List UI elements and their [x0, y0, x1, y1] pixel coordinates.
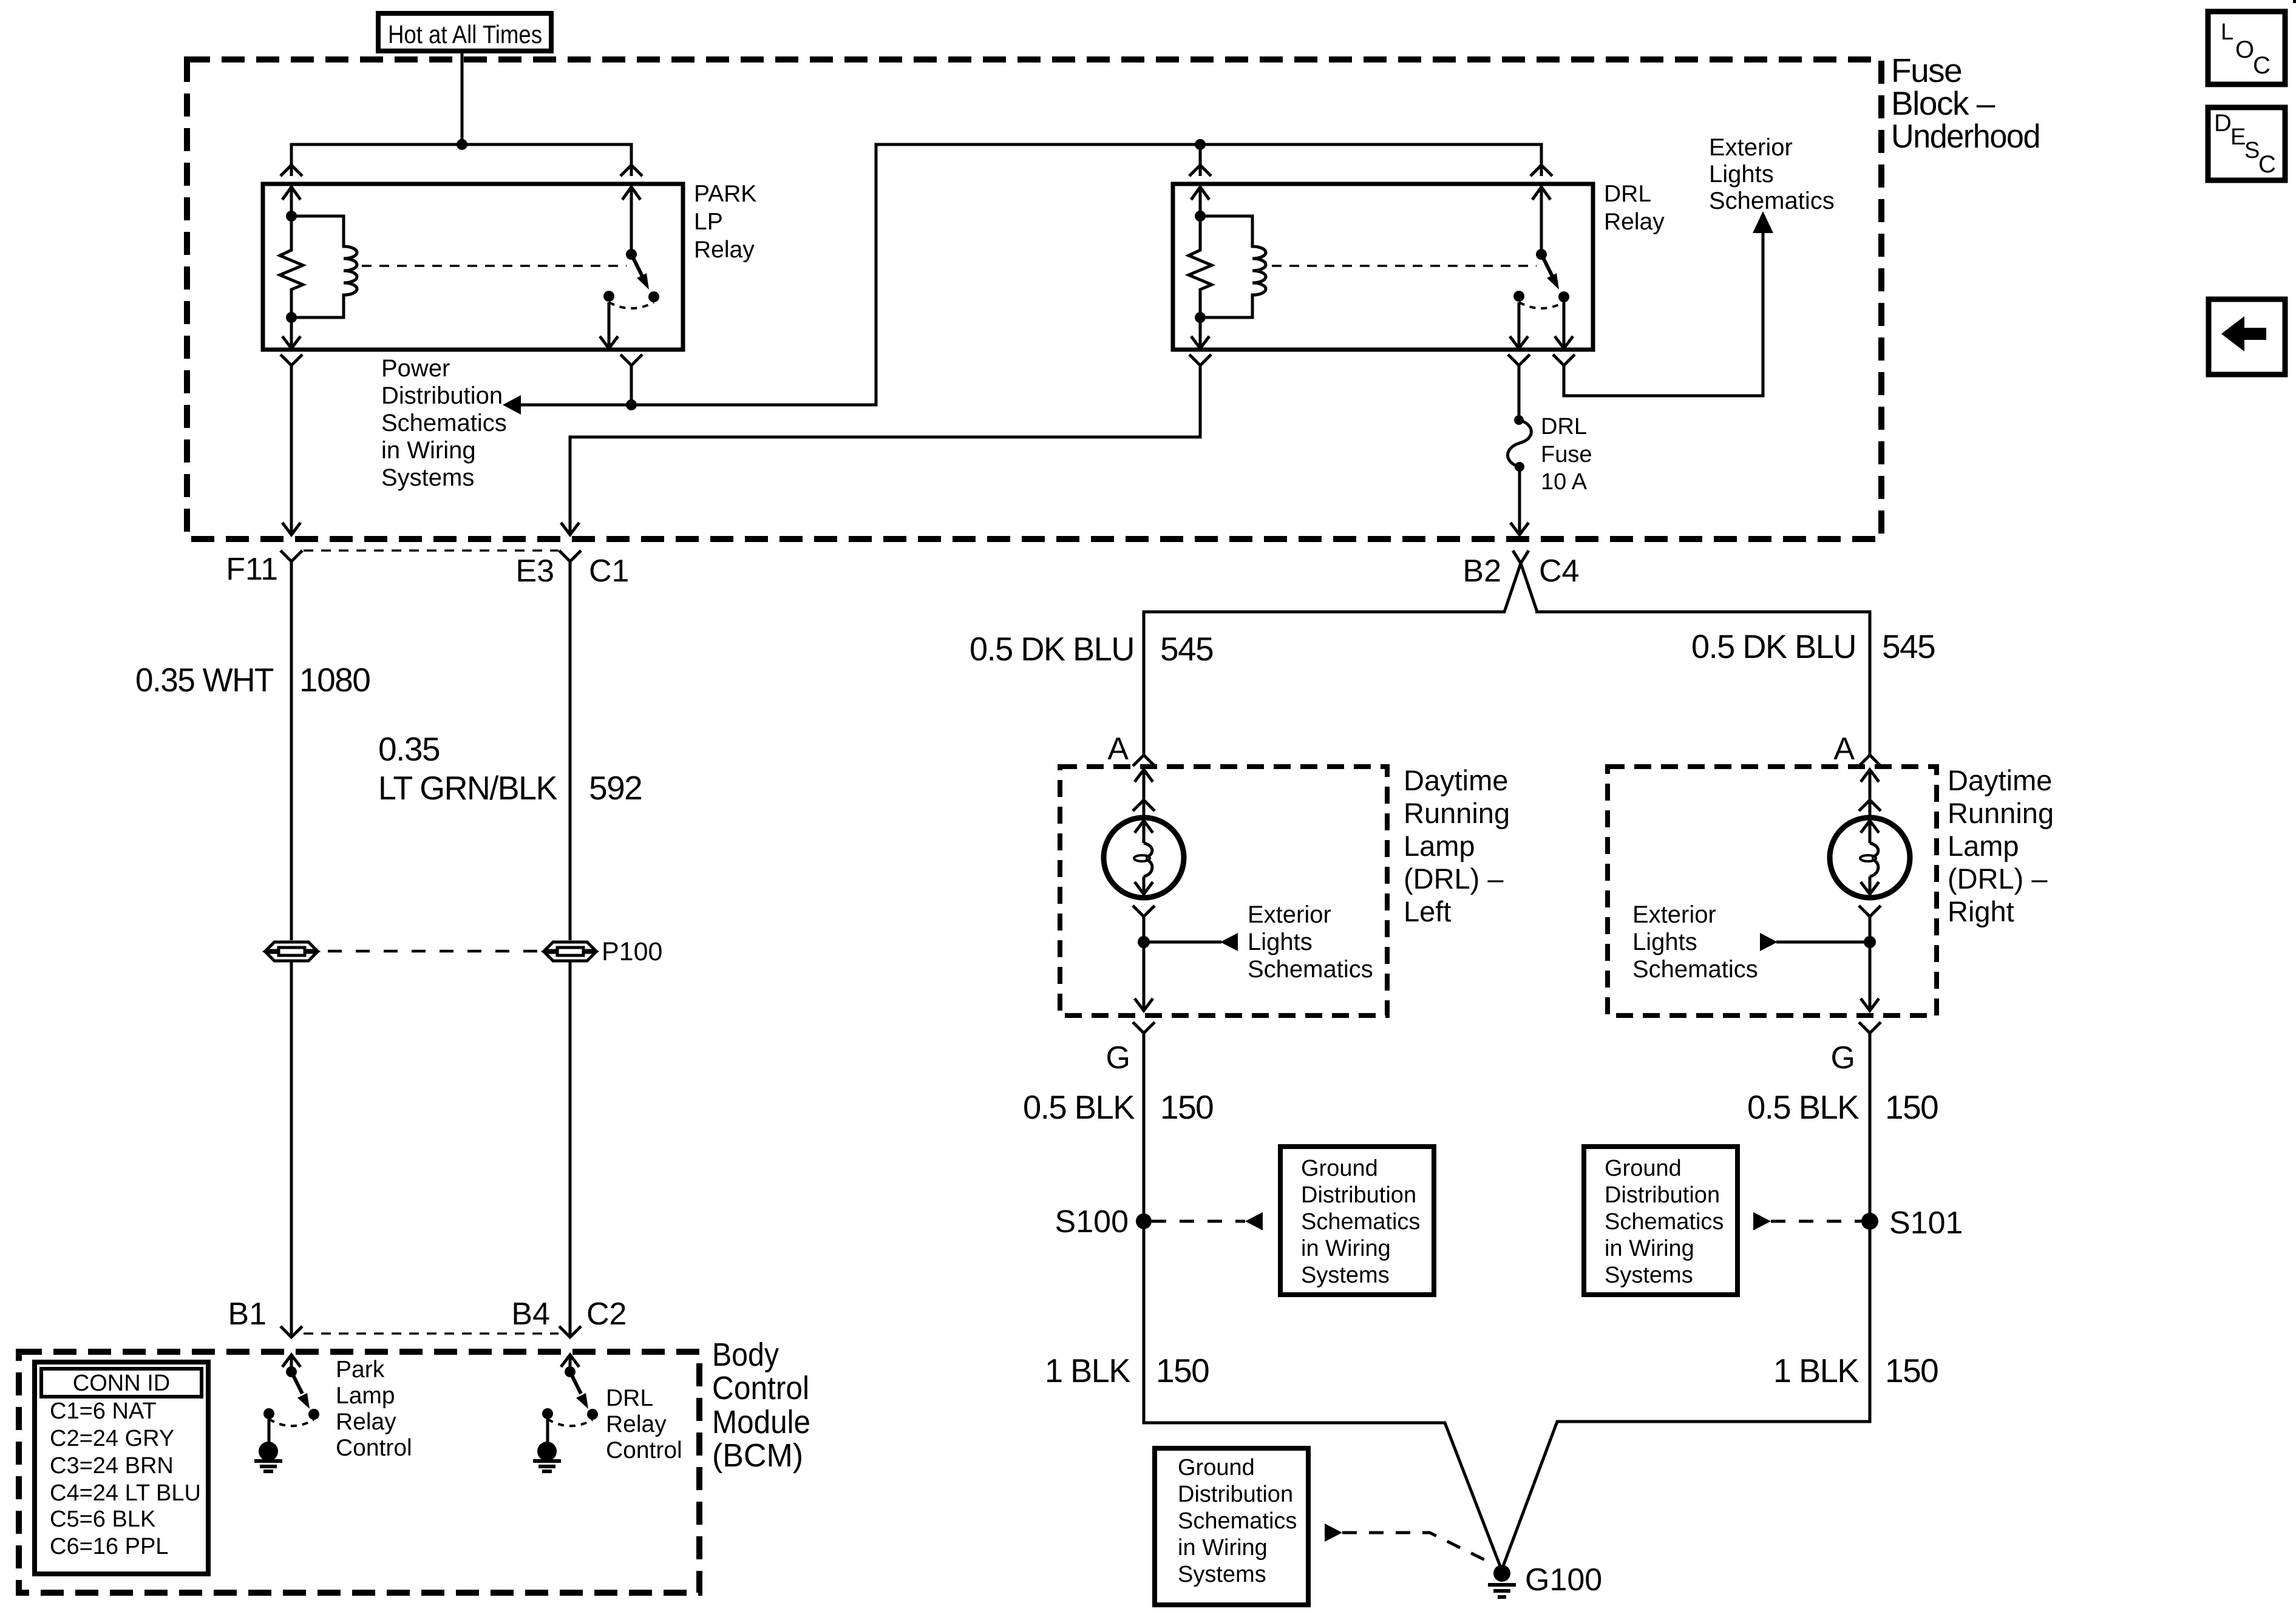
relay PARK LP Relay box [263, 184, 683, 350]
svg-text:Underhood: Underhood [1891, 117, 2040, 155]
svg-text:in Wiring: in Wiring [1605, 1236, 1694, 1261]
label: Exterior Lights Schematics (left lamp) [1248, 901, 1373, 983]
wire from fuse down to fuse block edge arrow [1510, 467, 1529, 535]
wire right lamp ground run to G100 [1503, 1033, 1870, 1566]
svg-text:B4: B4 [511, 1297, 550, 1332]
svg-text:Systems: Systems [1301, 1263, 1390, 1288]
svg-text:S: S [2244, 138, 2260, 163]
DRL relay switch contacts [1513, 291, 1524, 302]
svg-text:0.5 DK BLU: 0.5 DK BLU [970, 630, 1134, 668]
wire label 0.5 DK BLU 545 (right) [1691, 628, 1935, 665]
relay DRL Relay box [1173, 184, 1593, 350]
bulb DRL Right [1830, 818, 1910, 898]
dashed throw arc DRL switch [1519, 302, 1564, 308]
CONN ID table [35, 1362, 208, 1574]
connector pin label A (left) [1107, 731, 1129, 767]
node: coil bottom junction [286, 312, 297, 323]
svg-text:D: D [2214, 110, 2232, 137]
junction node on feed rail [457, 139, 467, 150]
BCM pin B1 entry arrow [282, 1355, 301, 1372]
svg-text:LP: LP [694, 209, 723, 235]
svg-text:Running: Running [1948, 797, 2054, 829]
connector face dashed line F11-E3 [304, 549, 559, 552]
svg-text:C: C [2253, 52, 2271, 79]
svg-text:C2=24 GRY: C2=24 GRY [50, 1426, 174, 1451]
wire label 0.35 WHT 1080 [135, 661, 370, 699]
svg-text:C3=24 BRN: C3=24 BRN [50, 1453, 174, 1479]
internal ground for drl driver [533, 1419, 561, 1471]
in-line connector X symbol B2/C4 [1504, 551, 1537, 612]
connector female half at G (left) [1133, 1022, 1155, 1033]
wire from left bulb to ground exit [1135, 917, 1153, 1011]
label: Fuse Block - Underhood [1891, 52, 2040, 155]
reference arrow Exterior Lights (left lamp) [1144, 933, 1238, 951]
wire drop to DRL coil pin [1199, 144, 1202, 176]
wire from DRL switch contact 2 to Exterior Lights reference arrow [1564, 211, 1773, 396]
svg-text:Fuse: Fuse [1541, 442, 1592, 467]
svg-text:G: G [1831, 1040, 1855, 1076]
label: Daytime Running Lamp (DRL) - Right [1948, 764, 2054, 927]
svg-text:DRL: DRL [606, 1385, 653, 1411]
svg-text:Block –: Block – [1891, 84, 1995, 122]
svg-text:545: 545 [1160, 630, 1213, 668]
svg-text:0.35: 0.35 [378, 730, 440, 768]
svg-text:0.35 WHT: 0.35 WHT [135, 661, 274, 699]
svg-text:(DRL) –: (DRL) – [1404, 863, 1504, 895]
svg-text:Fuse: Fuse [1891, 52, 1961, 89]
lamp DRL Right dashed housing [1608, 767, 1937, 1015]
svg-text:B1: B1 [228, 1297, 267, 1332]
svg-text:Ground: Ground [1178, 1455, 1255, 1480]
svg-text:545: 545 [1882, 628, 1935, 665]
DRL relay coil pin arrow [1191, 187, 1209, 216]
svg-text:1080: 1080 [299, 661, 370, 699]
wire label 0.5 BLK 150 (left) [1023, 1088, 1213, 1126]
pass-through connector P100 (right half) [545, 942, 596, 961]
wire from DRL switch to fuse [1518, 365, 1521, 420]
wire from right bulb to ground exit [1861, 917, 1879, 1011]
node: right lamp ground junction [1864, 936, 1876, 948]
svg-text:Distribution: Distribution [1605, 1182, 1720, 1208]
PARK relay coil output arrow (down to box edge) [282, 317, 301, 348]
svg-text:Schematics: Schematics [1605, 1209, 1724, 1235]
reference arrow Exterior Lights (right lamp) [1760, 933, 1870, 951]
dashed reference to G100 [1325, 1524, 1495, 1565]
svg-text:Daytime: Daytime [1948, 764, 2052, 796]
dashed actuation link PARK relay [362, 265, 627, 267]
svg-text:S100: S100 [1055, 1204, 1129, 1239]
connector female half at PARK relay pin 3 [620, 165, 642, 176]
coil inside PARK relay [291, 216, 357, 317]
connector female half at DRL relay pin 1 [1189, 165, 1211, 176]
svg-text:0.5 DK BLU: 0.5 DK BLU [1691, 628, 1856, 665]
connector pin label G (right) [1831, 1040, 1855, 1076]
splice S100 [1055, 1204, 1152, 1239]
svg-text:150: 150 [1885, 1352, 1938, 1389]
wire label 1 BLK 150 (right) [1773, 1352, 1938, 1389]
svg-text:Schematics: Schematics [1178, 1508, 1297, 1534]
svg-text:C1=6 NAT: C1=6 NAT [50, 1398, 157, 1424]
connector female half at PARK relay pin 1 [280, 165, 302, 176]
svg-text:Lights: Lights [1248, 929, 1313, 955]
resistor inside DRL relay [1189, 216, 1212, 317]
svg-text:Control: Control [712, 1370, 809, 1406]
svg-text:Distribution: Distribution [381, 382, 503, 409]
node: distribution junction [626, 399, 637, 410]
svg-text:Relay: Relay [336, 1409, 396, 1435]
svg-text:0.5 BLK: 0.5 BLK [1023, 1088, 1135, 1126]
svg-text:0.5 BLK: 0.5 BLK [1747, 1088, 1860, 1126]
fuse DRL Fuse 10 A [1508, 415, 1532, 472]
label: DRL Relay [1604, 181, 1665, 235]
svg-text:G100: G100 [1525, 1562, 1602, 1598]
connector pin label F11 [226, 552, 278, 587]
svg-text:Exterior: Exterior [1632, 901, 1716, 928]
svg-text:Relay: Relay [1604, 209, 1665, 235]
module BCM dashed boundary [19, 1352, 699, 1593]
svg-text:Ground: Ground [1605, 1156, 1682, 1181]
svg-text:C4=24 LT BLU: C4=24 LT BLU [50, 1480, 201, 1506]
connector pin label B1 [228, 1297, 267, 1332]
svg-text:Lamp: Lamp [1948, 830, 2019, 862]
wire from PARK switch output to distribution junction [630, 365, 633, 405]
wire to Power Distribution reference arrow [503, 395, 631, 415]
fuse block underhood dashed boundary [187, 59, 1881, 539]
connector female half at A (left) [1133, 755, 1155, 766]
svg-text:C: C [2258, 151, 2276, 178]
svg-text:Right: Right [1948, 895, 2014, 927]
connector female half below F11 [280, 551, 302, 561]
wire label 0.5 DK BLU 545 (left) [970, 630, 1213, 668]
svg-text:Control: Control [336, 1435, 412, 1461]
icon box back arrow [2209, 299, 2285, 375]
svg-text:Exterior: Exterior [1248, 901, 1331, 928]
node: coil top junction [286, 211, 297, 222]
PARK relay switch contacts [603, 291, 614, 302]
drl relay control driver switch [542, 1366, 598, 1426]
svg-text:C5=6 BLK: C5=6 BLK [50, 1507, 155, 1532]
dashed reference to Ground Distribution (S101) [1753, 1212, 1862, 1230]
svg-text:B2: B2 [1462, 554, 1501, 589]
svg-text:C1: C1 [589, 554, 629, 589]
DRL relay switch pivot [1536, 249, 1547, 260]
wire F11 feed down to fuse block edge arrow [282, 365, 301, 535]
label P100 [602, 937, 662, 966]
DRL relay switch pin arrow [1532, 187, 1550, 254]
svg-text:1 BLK: 1 BLK [1045, 1352, 1131, 1389]
connector face dashed line B1-B4 [304, 1332, 559, 1335]
icon box DESC [2208, 107, 2285, 180]
wire P100 to B1 [290, 961, 293, 1337]
ground G100 [1488, 1562, 1602, 1598]
label: DRL Relay Control [606, 1385, 682, 1463]
pass-through connector P100 (left half) [266, 942, 317, 961]
wire F11 to P100 [290, 561, 293, 940]
svg-text:Power: Power [381, 355, 450, 382]
dashed throw arc PARK switch [609, 302, 654, 308]
reference box Ground Distribution (right) [1584, 1147, 1737, 1295]
svg-text:Control: Control [606, 1437, 682, 1463]
connector female half at B1 [280, 1326, 302, 1337]
wire left lamp ground run to G100 [1144, 1033, 1500, 1566]
svg-text:DRL: DRL [1541, 414, 1587, 439]
svg-text:Schematics: Schematics [1709, 188, 1835, 214]
svg-text:Ground: Ground [1301, 1156, 1378, 1181]
right lamp feed pin arrows [1859, 770, 1881, 817]
wire P100 to B4/C2 [569, 961, 572, 1337]
svg-text:A: A [1107, 731, 1129, 767]
svg-text:592: 592 [589, 769, 642, 807]
bulb DRL Left [1104, 818, 1184, 898]
svg-text:Lamp: Lamp [1404, 830, 1475, 862]
node: DRL rail junction at coil pin [1195, 139, 1206, 150]
svg-text:Daytime: Daytime [1404, 764, 1508, 796]
connector female half at A (right) [1859, 755, 1881, 766]
svg-text:Distribution: Distribution [1301, 1182, 1416, 1208]
Hot at All Times power tag [378, 13, 551, 51]
svg-text:Module: Module [712, 1404, 810, 1440]
svg-text:(DRL) –: (DRL) – [1948, 863, 2048, 895]
svg-text:Systems: Systems [381, 464, 474, 491]
svg-text:in Wiring: in Wiring [1301, 1236, 1391, 1261]
svg-text:Distribution: Distribution [1178, 1482, 1293, 1507]
svg-text:S101: S101 [1889, 1205, 1963, 1241]
dashed line between P100 halves [328, 950, 540, 953]
dashed actuation link DRL relay [1272, 265, 1537, 267]
svg-text:Schematics: Schematics [1301, 1209, 1420, 1235]
label: Park Lamp Relay Control [336, 1357, 412, 1461]
svg-text:C4: C4 [1539, 554, 1579, 589]
node: DRL coil bottom junction [1195, 312, 1206, 323]
svg-text:E: E [2230, 124, 2246, 150]
connector female half below PARK pin 2 [280, 354, 302, 365]
label: Daytime Running Lamp (DRL) - Left [1404, 764, 1510, 927]
PARK relay switch arm [631, 254, 649, 290]
corner mark artifact [2293, 0, 2296, 3]
park lamp relay control driver switch [263, 1366, 319, 1426]
connector below right bulb [1859, 906, 1881, 917]
svg-text:Schematics: Schematics [381, 410, 507, 436]
svg-text:Left: Left [1404, 895, 1451, 927]
svg-text:O: O [2235, 36, 2254, 63]
internal ground for park lamp driver [254, 1419, 282, 1471]
svg-text:L: L [2221, 19, 2233, 45]
wire: DRL coil return to E3/C1 [561, 354, 1211, 535]
PARK relay switch pin arrow (pin up) [622, 187, 640, 254]
PARK relay coil pin arrow (pin up) [282, 187, 301, 216]
svg-text:PARK: PARK [694, 181, 756, 207]
label: Power Distribution Schematics in Wiring Systems [381, 355, 507, 491]
svg-text:C2: C2 [586, 1297, 627, 1332]
svg-text:DRL: DRL [1604, 181, 1651, 207]
svg-text:C6=16 PPL: C6=16 PPL [50, 1534, 168, 1559]
splice S101 [1861, 1205, 1963, 1241]
svg-text:10 A: 10 A [1541, 469, 1588, 495]
wire E3/C1 to P100 [569, 561, 572, 940]
svg-text:Lamp: Lamp [336, 1383, 395, 1409]
wire label 0.5 BLK 150 (right) [1747, 1088, 1938, 1126]
connector female half at B4 [559, 1326, 581, 1337]
svg-text:(BCM): (BCM) [712, 1437, 803, 1474]
wire label 0.35 LT GRN/BLK 592 [378, 730, 642, 807]
DRL relay switch output arrows (both contacts down) [1510, 302, 1573, 348]
resistor inside PARK relay [280, 216, 303, 317]
svg-text:150: 150 [1160, 1088, 1213, 1126]
svg-text:LT GRN/BLK: LT GRN/BLK [378, 769, 558, 807]
node: DRL coil top junction [1195, 211, 1206, 222]
svg-text:A: A [1833, 731, 1855, 767]
connector female half below E3 [559, 551, 581, 561]
connector female half at G (right) [1859, 1022, 1881, 1033]
svg-text:P100: P100 [602, 937, 662, 966]
connector pin labels B2 / C4 [1462, 554, 1579, 589]
wire label 1 BLK 150 (left) [1045, 1352, 1209, 1389]
label: Body Control Module (BCM) [712, 1337, 810, 1474]
connector female half at DRL relay pin 3 [1530, 165, 1552, 176]
reference box Ground Distribution (left) [1280, 1147, 1434, 1295]
wire from Hot at All Times down to feed rail [461, 53, 464, 144]
svg-text:Exterior: Exterior [1709, 134, 1793, 161]
svg-text:Running: Running [1404, 797, 1510, 829]
svg-text:150: 150 [1885, 1088, 1938, 1126]
connector pin labels E3 / C1 [515, 554, 629, 589]
svg-text:Relay: Relay [694, 237, 755, 263]
wire: feed rail to PARK LP relay pins [291, 144, 631, 176]
svg-text:F11: F11 [226, 552, 278, 587]
svg-text:Relay: Relay [606, 1411, 667, 1437]
BCM pin B4 entry arrow [561, 1355, 579, 1372]
dashed reference to Ground Distribution (S100) [1152, 1212, 1263, 1230]
svg-text:Schematics: Schematics [1248, 956, 1373, 983]
left lamp feed pin arrows [1133, 770, 1155, 817]
svg-text:G: G [1106, 1040, 1130, 1076]
svg-text:Systems: Systems [1605, 1263, 1693, 1288]
icon box LOC [2208, 12, 2285, 84]
wire: DK BLU distribution bus to both DRL lamps [1144, 612, 1870, 755]
svg-text:Park: Park [336, 1357, 385, 1383]
connector pin label A (right) [1833, 731, 1855, 767]
svg-text:in Wiring: in Wiring [1178, 1535, 1268, 1561]
connector female half below PARK pin 4 [620, 354, 642, 365]
svg-text:150: 150 [1156, 1352, 1209, 1389]
label: DRL Fuse 10 A [1541, 414, 1592, 495]
reference box Ground Distribution (bottom) [1155, 1448, 1308, 1605]
svg-text:CONN ID: CONN ID [73, 1371, 170, 1396]
svg-text:Lights: Lights [1709, 161, 1774, 188]
connector below left bulb [1133, 906, 1155, 917]
label: PARK LP Relay [694, 181, 756, 263]
svg-text:Systems: Systems [1178, 1562, 1266, 1587]
connector female half below DRL switch contact 1 [1508, 354, 1530, 365]
svg-text:Hot at All Times: Hot at All Times [388, 20, 542, 49]
PARK relay switch output arrow (down to box edge) [600, 302, 618, 348]
connector female half below DRL switch contact 2 [1553, 354, 1575, 365]
node: left lamp ground junction [1138, 936, 1150, 948]
connector pin label G (left) [1106, 1040, 1130, 1076]
svg-text:Schematics: Schematics [1632, 956, 1758, 983]
lamp DRL Left dashed housing [1060, 767, 1387, 1015]
svg-text:1 BLK: 1 BLK [1773, 1352, 1860, 1389]
connector pin labels B4 / C2 [511, 1297, 627, 1332]
svg-text:Body: Body [712, 1337, 779, 1373]
label: Exterior Lights Schematics (top) [1709, 134, 1835, 214]
svg-text:in Wiring: in Wiring [381, 437, 476, 464]
svg-text:E3: E3 [515, 554, 554, 589]
DRL relay coil output arrow [1191, 317, 1209, 348]
label: Exterior Lights Schematics (right lamp) [1632, 901, 1758, 983]
DRL relay switch arm [1541, 254, 1559, 290]
wire from junction up and over to DRL relay rail [631, 144, 1541, 405]
coil inside DRL relay [1200, 216, 1266, 317]
svg-text:Lights: Lights [1632, 929, 1697, 955]
PARK relay switch pivot [626, 249, 637, 260]
